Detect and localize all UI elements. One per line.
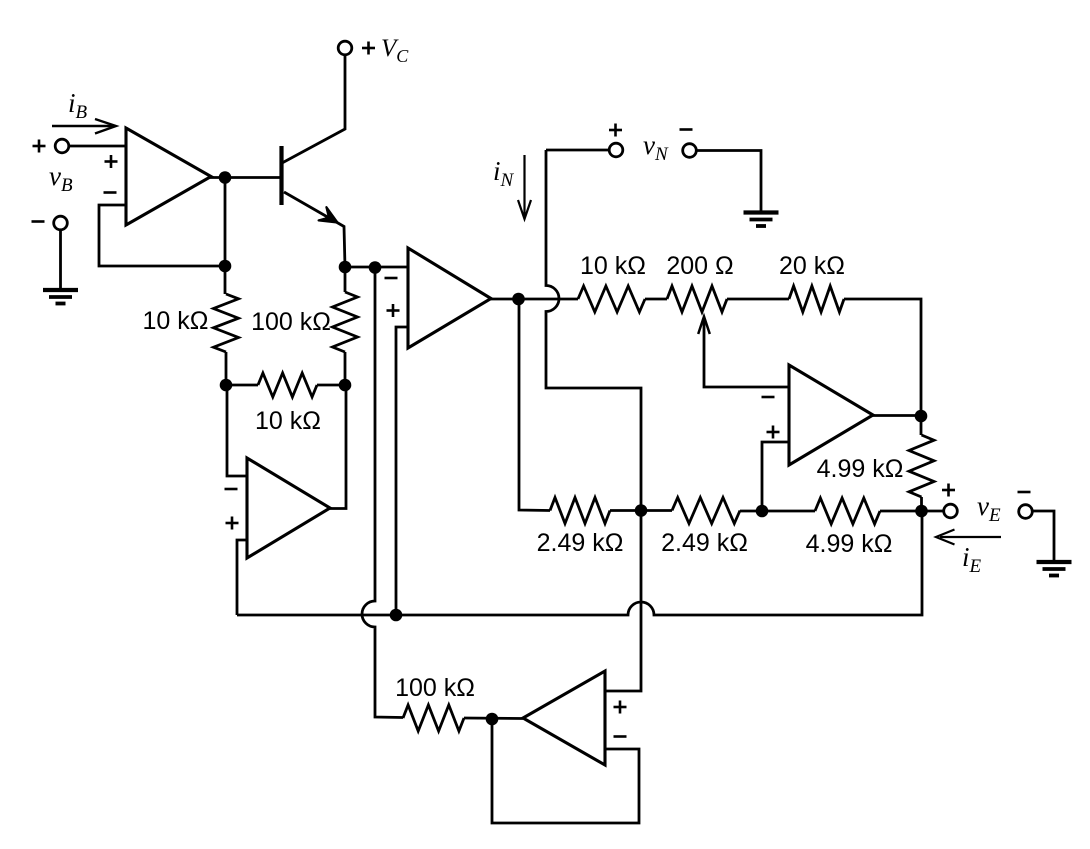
svg-text:100 kΩ: 100 kΩ xyxy=(395,674,475,702)
svg-text:20 kΩ: 20 kΩ xyxy=(779,252,845,280)
svg-text:10 kΩ: 10 kΩ xyxy=(143,307,209,335)
svg-text:2.49 kΩ: 2.49 kΩ xyxy=(537,529,624,557)
svg-text:iB: iB xyxy=(68,88,88,123)
svg-text:vN: vN xyxy=(643,130,669,165)
svg-text:4.99 kΩ: 4.99 kΩ xyxy=(817,455,904,483)
svg-text:100 kΩ: 100 kΩ xyxy=(251,308,331,336)
svg-text:4.99 kΩ: 4.99 kΩ xyxy=(806,530,893,558)
svg-text:vB: vB xyxy=(49,161,73,196)
svg-text:iE: iE xyxy=(962,542,982,577)
svg-text:10 kΩ: 10 kΩ xyxy=(580,252,646,280)
svg-text:2.49 kΩ: 2.49 kΩ xyxy=(661,529,748,557)
svg-text:VC: VC xyxy=(381,35,409,66)
svg-text:vE: vE xyxy=(977,491,1001,526)
svg-text:200 Ω: 200 Ω xyxy=(666,252,733,280)
svg-text:10 kΩ: 10 kΩ xyxy=(255,407,321,435)
svg-text:iN: iN xyxy=(493,156,515,191)
